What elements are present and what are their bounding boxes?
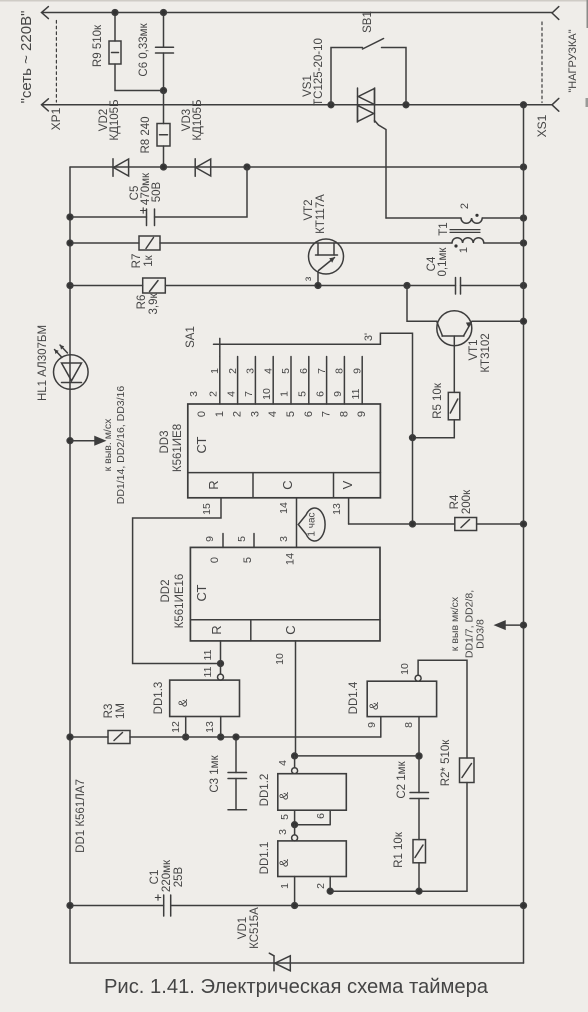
svg-text:1: 1: [279, 883, 291, 889]
svg-text:11: 11: [202, 649, 214, 660]
gate DD1.2 inputs pins 5,6: [295, 810, 331, 825]
svg-text:С2 1мк: С2 1мк: [396, 760, 408, 798]
wire DD2.R to DD1.3 output: [220, 641, 222, 664]
triac VS1: [358, 88, 375, 122]
svg-text:КД105Б: КД105Б: [109, 99, 121, 140]
gate DD1.2 box: [278, 774, 347, 811]
svg-text:11: 11: [202, 666, 214, 677]
svg-text:к выв. м/сх: к выв. м/сх: [102, 418, 114, 471]
svg-text:9: 9: [204, 536, 216, 542]
svg-text:СТ: СТ: [194, 436, 209, 453]
connector XS1 dashed outline: [541, 22, 543, 103]
svg-text:0: 0: [209, 557, 221, 563]
svg-text:7: 7: [321, 411, 333, 417]
wire VS1 gate to T1: [375, 121, 387, 219]
gate DD1.4 output bubble pin 10: [415, 675, 421, 681]
wire top mains L1: [43, 12, 552, 14]
wire SA1 common to R4: [214, 333, 413, 524]
IC DD2 K561IE16 box: [190, 547, 380, 641]
svg-text:V: V: [340, 480, 355, 489]
SA1 contact lines (DD3 outputs 1-9): [220, 357, 362, 405]
capacitor C5: [70, 216, 147, 218]
svg-text:ХР1: ХР1: [49, 107, 63, 130]
svg-text:5: 5: [279, 814, 291, 820]
svg-text:3: 3: [277, 829, 289, 835]
DD2 pin 5 stub: [253, 534, 255, 548]
svg-text:3,9к: 3,9к: [148, 293, 160, 315]
svg-text:С6 0,33мк: С6 0,33мк: [138, 22, 150, 76]
svg-text:DD1.1: DD1.1: [259, 842, 271, 875]
resistor R6: [70, 285, 143, 287]
resistor R3: [70, 736, 108, 738]
svg-text:Т1: Т1: [438, 222, 450, 235]
svg-text:DD1 К561ЛА7: DD1 К561ЛА7: [75, 779, 87, 853]
svg-text:SB1: SB1: [362, 11, 374, 33]
svg-text:С3 1мк: С3 1мк: [209, 754, 221, 792]
svg-text:DD1.4: DD1.4: [348, 681, 360, 714]
svg-text:з: з: [303, 276, 314, 281]
svg-text:R4: R4: [449, 494, 461, 509]
svg-text:8: 8: [403, 722, 415, 728]
svg-text:12: 12: [170, 721, 182, 733]
wire lower mains L2: [43, 104, 552, 106]
gate DD1.1 box: [278, 841, 347, 877]
svg-text:2: 2: [232, 411, 244, 417]
svg-text:14: 14: [285, 553, 297, 565]
svg-text:220мк: 220мк: [161, 859, 173, 892]
svg-text:3: 3: [278, 536, 290, 542]
svg-text:"НАГРУЗКА": "НАГРУЗКА": [567, 29, 579, 92]
svg-text:3: 3: [188, 391, 200, 397]
svg-text:R7: R7: [131, 254, 143, 269]
node R9-C6-R8: [161, 88, 167, 94]
gate DD1.2 output bubble pin 4: [294, 756, 296, 768]
gate DD1.3 inputs pins 12,13: [186, 717, 221, 738]
svg-text:XS1: XS1: [535, 114, 549, 137]
resistor R8: [163, 91, 165, 124]
svg-text:R2* 510к: R2* 510к: [440, 739, 452, 787]
svg-text:0,1мк: 0,1мк: [437, 247, 449, 277]
svg-text:1к: 1к: [143, 254, 155, 266]
transformer T1 winding 2: [386, 217, 461, 219]
diode VD2: [112, 159, 114, 176]
gate DD1.3 box: [170, 680, 240, 716]
svg-text:8: 8: [334, 368, 346, 374]
svg-text:1 час: 1 час: [307, 512, 318, 536]
capacitor C2: [418, 756, 420, 793]
svg-text:5: 5: [242, 557, 254, 563]
svg-text:1: 1: [209, 368, 221, 374]
gate DD1.3 output bubble: [218, 674, 224, 680]
DD2 pin 9 stub: [222, 534, 224, 548]
svg-text:R3: R3: [103, 704, 115, 719]
svg-text:10: 10: [399, 663, 411, 675]
svg-text:25В: 25В: [173, 866, 185, 887]
gate DD1.1 inputs pins 1,2: [295, 877, 331, 906]
svg-text:1: 1: [214, 411, 226, 417]
svg-text:5: 5: [297, 391, 309, 397]
pointer arrow to DD1/7 DD2/8 DD3/8: [521, 622, 527, 628]
svg-text:2: 2: [459, 203, 471, 209]
connector XS1 pin 2: [552, 98, 559, 111]
svg-text:3: 3: [245, 368, 257, 374]
svg-text:R6: R6: [136, 295, 148, 310]
wire DD1.1 pin2 to R1/R2: [330, 890, 467, 892]
svg-text:8: 8: [338, 411, 350, 417]
connector XP1 dashed outline: [55, 21, 57, 103]
svg-text:11: 11: [350, 388, 362, 399]
switch SA1 wiper: [219, 338, 221, 356]
svg-text:КД105Б: КД105Б: [192, 99, 204, 140]
svg-text:6: 6: [315, 813, 327, 819]
svg-text:13: 13: [204, 721, 216, 733]
svg-text:9: 9: [356, 411, 368, 417]
connector XP1 pin 1: [42, 7, 49, 19]
svg-text:4: 4: [267, 411, 279, 417]
svg-text:4: 4: [277, 760, 289, 766]
svg-text:R8 240: R8 240: [140, 116, 152, 153]
capacitor C3: [235, 737, 237, 773]
wire rectified rail (VD2/VD3 row): [70, 166, 524, 168]
svg-text:2: 2: [208, 391, 220, 397]
svg-text:ТС125-20-10: ТС125-20-10: [313, 38, 325, 106]
svg-text:5: 5: [236, 536, 248, 542]
zener diode VD1: [273, 956, 275, 971]
svg-text:6: 6: [298, 368, 310, 374]
resistor R1: [413, 840, 426, 863]
svg-text:15: 15: [201, 503, 213, 515]
svg-text:DD3: DD3: [159, 430, 171, 453]
transistor VT2 (unijunction): [309, 239, 344, 274]
svg-text:5: 5: [280, 368, 292, 374]
pointer arrow to DD1/14 DD2/16 DD3/16: [67, 438, 73, 444]
svg-text:К561ИЕ8: К561ИЕ8: [172, 424, 184, 472]
transistor VT1: [407, 286, 437, 322]
svg-text:7: 7: [243, 391, 255, 397]
IC DD3 K561IE8 box: [188, 404, 381, 498]
svg-text:4: 4: [262, 368, 274, 374]
LED HL1: [54, 355, 89, 390]
svg-text:6: 6: [303, 411, 315, 417]
wire DD2.C down: [295, 641, 297, 756]
resistor R4: [349, 523, 455, 525]
resistor R9: [114, 13, 116, 42]
resistor R7: [70, 242, 139, 244]
transformer T1 winding 1: [452, 238, 484, 243]
wire DD3.C to DD2 pin3: [296, 498, 298, 548]
wire left rail: [69, 167, 71, 963]
svg-text:10: 10: [274, 653, 286, 665]
connector XP1 pin 2: [42, 99, 49, 111]
svg-text:С: С: [283, 625, 298, 634]
svg-text:КТ3102: КТ3102: [480, 333, 492, 372]
wire DD3.V to R4 row: [348, 498, 350, 524]
svg-text:Рис. 1.41. Электрическая схема: Рис. 1.41. Электрическая схема таймера: [104, 976, 489, 998]
svg-text:2: 2: [315, 883, 327, 889]
svg-text:R1 10к: R1 10к: [393, 831, 405, 868]
gate DD1.1 output bubble pin 3: [292, 835, 298, 841]
svg-text:КС515А: КС515А: [249, 907, 261, 949]
svg-text:3': 3': [363, 333, 375, 341]
svg-text:DD1.2: DD1.2: [259, 774, 271, 807]
svg-text:SA1: SA1: [185, 326, 197, 348]
svg-text:3: 3: [249, 411, 261, 417]
svg-text:&: &: [277, 792, 291, 800]
svg-text:9: 9: [366, 722, 378, 728]
svg-text:HL1 АЛ307БМ: HL1 АЛ307БМ: [37, 325, 49, 401]
svg-text:DD2: DD2: [160, 579, 172, 602]
svg-text:R: R: [206, 480, 221, 489]
svg-text:1: 1: [279, 391, 291, 397]
resistor R5: [453, 336, 455, 392]
transformer T1 core: [450, 230, 480, 233]
svg-text:С1: С1: [149, 870, 161, 885]
svg-text:14: 14: [278, 502, 290, 514]
svg-text:"сеть ~ 220В": "сеть ~ 220В": [18, 11, 35, 104]
gate DD1.4 box: [367, 681, 436, 716]
svg-text:DD1/14, DD2/16, DD3/16: DD1/14, DD2/16, DD3/16: [115, 386, 127, 505]
diode VD3: [194, 159, 196, 176]
svg-text:1: 1: [458, 247, 470, 253]
svg-text:&: &: [277, 859, 291, 867]
svg-text:10: 10: [261, 388, 273, 400]
wire right rail: [523, 105, 525, 963]
balloon 1 hour callout: [298, 508, 325, 541]
svg-text:2: 2: [227, 368, 239, 374]
svg-text:9: 9: [332, 391, 344, 397]
gate DD1.4 inputs pins 9,8: [381, 717, 419, 756]
svg-text:СТ: СТ: [194, 584, 209, 601]
capacitor C6: [163, 13, 165, 48]
svg-text:9: 9: [351, 368, 363, 374]
svg-text:VT2: VT2: [303, 199, 315, 220]
svg-text:7: 7: [316, 368, 328, 374]
wire bottom VD1 row: [70, 962, 524, 964]
svg-text:0: 0: [196, 411, 208, 417]
svg-text:R5 10к: R5 10к: [432, 382, 444, 419]
svg-text:С: С: [280, 480, 295, 489]
svg-text:VD1: VD1: [237, 917, 249, 939]
svg-text:13: 13: [331, 503, 343, 515]
connector XS1 pin 1: [552, 7, 559, 20]
svg-text:4: 4: [225, 391, 237, 397]
capacitor C1: [70, 905, 164, 907]
svg-text:6: 6: [314, 391, 326, 397]
svg-text:200к: 200к: [461, 489, 473, 514]
svg-text:к выв мк/сх: к выв мк/сх: [449, 596, 461, 651]
wire DD3.R to DD1.3 output node: [133, 498, 221, 664]
wire DD1.2 output row: [295, 755, 419, 757]
svg-text:VT1: VT1: [468, 339, 480, 360]
svg-text:R: R: [209, 625, 224, 634]
svg-text:50В: 50В: [151, 181, 163, 202]
svg-text:К561ИЕ16: К561ИЕ16: [174, 574, 186, 629]
svg-text:DD3/8: DD3/8: [475, 619, 487, 649]
svg-text:R9 510к: R9 510к: [92, 24, 104, 67]
switch SB1: [331, 48, 363, 105]
svg-text:&: &: [367, 702, 381, 710]
svg-text:&: &: [176, 699, 190, 707]
svg-text:DD1.3: DD1.3: [153, 682, 165, 715]
svg-text:5: 5: [285, 411, 297, 417]
capacitor C4: [456, 278, 461, 295]
svg-text:1М: 1М: [115, 703, 127, 719]
resistor R2*: [460, 758, 475, 783]
svg-text:КТ117А: КТ117А: [315, 194, 327, 234]
